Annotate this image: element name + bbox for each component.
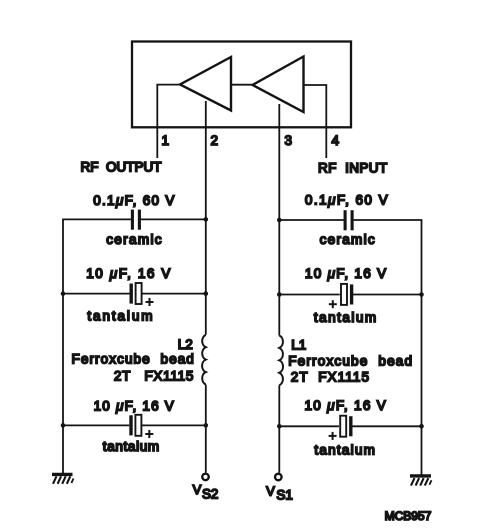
svg-text:MCB957: MCB957 bbox=[385, 509, 432, 523]
junction dot C6 right bbox=[419, 424, 424, 429]
terminal VS2 bbox=[202, 474, 209, 481]
svg-text:10 μF, 16 V: 10 μF, 16 V bbox=[305, 266, 388, 281]
svg-text:10 μF, 16 V: 10 μF, 16 V bbox=[94, 398, 175, 413]
svg-text:V: V bbox=[193, 482, 202, 497]
svg-text:3: 3 bbox=[285, 133, 293, 148]
svg-text:S2: S2 bbox=[202, 486, 218, 501]
capacitor C2 10uF tantalum (left) bbox=[131, 283, 153, 306]
capacitor C4 0.1uF ceramic (right) bbox=[345, 210, 352, 230]
junction dot C3 right bbox=[204, 423, 209, 428]
capacitor C3 10uF tantalum (left bottom) bbox=[131, 415, 153, 438]
svg-text:S1: S1 bbox=[276, 488, 292, 503]
svg-text:2T FX1115: 2T FX1115 bbox=[291, 369, 370, 384]
svg-text:Ferroxcube bead: Ferroxcube bead bbox=[72, 352, 195, 367]
inductor L2 bbox=[202, 335, 206, 385]
junction dot C2 right bbox=[204, 291, 209, 296]
capacitor C1 0.1uF ceramic (left) bbox=[132, 210, 139, 230]
capacitor C6 10uF tantalum (right bottom) bbox=[329, 416, 351, 440]
svg-text:0.1μF, 60 V: 0.1μF, 60 V bbox=[305, 192, 389, 207]
svg-text:L2: L2 bbox=[178, 337, 193, 352]
op-amp A2 bbox=[253, 57, 304, 113]
svg-text:tantalum: tantalum bbox=[314, 310, 378, 325]
svg-text:tantalum: tantalum bbox=[314, 442, 376, 457]
junction dot pin3/C4 bbox=[277, 218, 282, 223]
svg-text:V: V bbox=[266, 484, 275, 499]
junction dot C2 left bbox=[61, 291, 66, 296]
svg-text:L1: L1 bbox=[291, 338, 306, 353]
svg-text:2: 2 bbox=[211, 133, 219, 148]
svg-text:Ferroxcube bead: Ferroxcube bead bbox=[288, 354, 413, 369]
junction dot C5 left bbox=[277, 292, 282, 297]
wire A1 output to pin 1 bbox=[157, 85, 180, 158]
wire right network bottom (C6 row) bbox=[279, 425, 421, 427]
wire pin 2 rail bbox=[205, 101, 207, 473]
junction dot pin2/C1 bbox=[204, 217, 209, 222]
junction dot C3 left bbox=[61, 423, 66, 428]
svg-text:2T FX1115: 2T FX1115 bbox=[114, 368, 194, 383]
op-amp A1 bbox=[180, 57, 231, 111]
ground right bbox=[410, 476, 432, 486]
wire left network middle (C2 row) bbox=[63, 293, 206, 295]
capacitor C5 10uF tantalum (right) bbox=[329, 284, 352, 308]
svg-text:4: 4 bbox=[332, 133, 340, 148]
svg-text:tantalum: tantalum bbox=[103, 439, 160, 454]
wire A2 input to pin 4 bbox=[304, 85, 327, 158]
svg-text:ceramic: ceramic bbox=[106, 232, 163, 247]
wire right network top (C4 row) bbox=[279, 220, 421, 475]
terminal VS1 bbox=[275, 474, 282, 481]
junction dot C6 left bbox=[277, 424, 282, 429]
IC box U1 bbox=[132, 42, 351, 128]
svg-text:10 μF, 16 V: 10 μF, 16 V bbox=[86, 266, 172, 281]
wire A1 input to A2 output bbox=[231, 84, 253, 86]
svg-text:10 μF, 16 V: 10 μF, 16 V bbox=[305, 398, 388, 413]
wire left network top (C1 row) bbox=[63, 219, 206, 474]
wire left network bottom (C3 row) bbox=[63, 424, 206, 426]
svg-text:1: 1 bbox=[162, 133, 170, 148]
label VS1 bbox=[266, 484, 293, 503]
wire right network middle (C5 row) bbox=[279, 294, 421, 296]
label VS2 bbox=[193, 482, 219, 501]
ground left bbox=[52, 474, 74, 483]
svg-text:RF INPUT: RF INPUT bbox=[318, 160, 388, 175]
wire pin 3 rail bbox=[278, 104, 280, 473]
svg-text:0.1μF, 60 V: 0.1μF, 60 V bbox=[93, 193, 176, 208]
svg-text:ceramic: ceramic bbox=[320, 232, 376, 247]
svg-text:RF OUTPUT: RF OUTPUT bbox=[81, 160, 162, 175]
svg-text:tantalum: tantalum bbox=[87, 308, 154, 323]
inductor L1 bbox=[279, 336, 283, 386]
junction dot C5 right bbox=[419, 292, 424, 297]
